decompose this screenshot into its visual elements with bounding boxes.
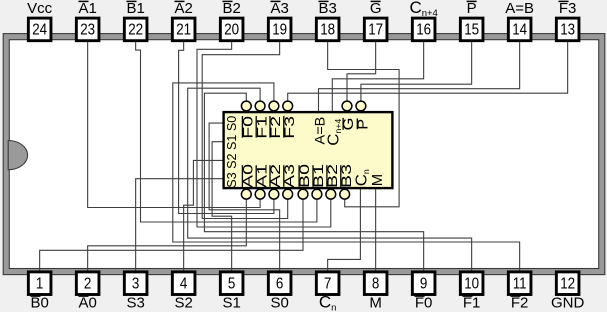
svg-text:19: 19 [272,22,287,39]
wire B2 net [197,41,331,227]
wire Cn+4 net [332,41,423,112]
pin box 1 (B0) [28,272,51,295]
label Cn+4 pin label (rotated) [325,118,343,145]
svg-text:B3: B3 [318,0,336,17]
wire B0 net [40,199,303,271]
wire S0 net [209,123,280,271]
svg-text:M: M [370,174,386,186]
pin box 16 (Cn+4) [412,18,435,41]
svg-text:23: 23 [80,22,95,39]
label Cn pin label (rotated) [353,169,371,186]
svg-text:G: G [370,0,382,17]
svg-text:6: 6 [276,275,283,292]
svg-text:4: 4 [180,275,187,292]
pin box 7 (Cn) [316,272,339,295]
inversion bubble B3 in [340,189,350,199]
svg-text:21: 21 [176,22,191,39]
pin box 11 (F2) [508,272,531,295]
svg-text:1: 1 [36,275,43,292]
svg-text:F3: F3 [559,0,577,17]
label F1 pin label (rotated) [254,116,270,139]
pin box 15 (P) [460,18,483,41]
svg-text:7: 7 [324,275,331,292]
pin box 21 (A2) [172,18,195,41]
label P pin label (rotated) [355,118,371,129]
pin box 5 (S1) [220,272,243,295]
label B0 pin label (rotated) [297,164,313,188]
svg-text:3: 3 [132,275,139,292]
svg-text:A2: A2 [174,0,192,17]
package inner area [9,40,598,269]
inversion bubble F3 out [283,101,293,111]
wire S1 net [212,142,232,271]
label F0 pin label (rotated) [240,116,256,139]
wire G net [347,41,376,101]
wire A=B net [319,41,520,112]
svg-text:M: M [369,295,382,312]
pin box 8 (M) [364,272,387,295]
wire B3 net [328,41,399,207]
svg-text:S3 S2 S1 S0: S3 S2 S1 S0 [225,116,239,188]
pin box 20 (B2) [220,18,243,41]
svg-text:16: 16 [416,22,431,39]
svg-text:F1: F1 [463,295,481,312]
pin box 18 (B3) [316,18,339,41]
label A1 pin label (rotated) [254,164,270,188]
svg-text:S3: S3 [126,295,144,312]
svg-text:17: 17 [368,22,383,39]
svg-text:22: 22 [128,22,143,39]
pin box 23 (A1) [76,18,99,41]
wire P net [361,41,472,101]
pin box 9 (F0) [412,272,435,295]
label F3 pin label (rotated) [282,116,298,139]
svg-text:9: 9 [420,275,427,292]
svg-text:A0: A0 [78,295,96,312]
svg-text:P: P [467,0,477,17]
svg-text:S0: S0 [270,295,288,312]
pin box 3 (S3) [124,272,147,295]
pin box 19 (A3) [268,18,291,41]
svg-text:B2: B2 [222,0,240,17]
svg-text:2: 2 [84,275,91,292]
inversion bubble P out [356,101,366,111]
label B3 pin label (rotated) [339,164,355,188]
pin box 6 (S0) [268,272,291,295]
svg-text:F0: F0 [415,295,433,312]
label A2 pin label (rotated) [268,164,284,188]
pin box 4 (S2) [172,272,195,295]
inversion bubble F0 out [241,101,251,111]
pin box 14 (A=B) [508,18,531,41]
svg-text:5: 5 [228,275,235,292]
pin box 13 (F3) [556,18,579,41]
inversion bubble G out [342,101,352,111]
wire Cn net [328,188,361,271]
svg-text:B0: B0 [30,295,48,312]
inversion bubble B1 in [312,189,322,199]
wire S2 net [184,160,224,271]
svg-text:20: 20 [224,22,239,39]
wire A2 net [179,41,274,214]
inversion bubble F1 out [255,101,265,111]
svg-text:10: 10 [464,275,479,292]
label A=B pin label (rotated) [312,117,328,145]
inversion bubble A3 in [283,189,293,199]
inversion bubble B2 in [326,189,336,199]
label B2 pin label (rotated) [325,164,341,188]
svg-text:13: 13 [560,22,575,39]
svg-text:12: 12 [560,275,575,292]
label A0 pin label (rotated) [240,164,256,188]
svg-text:Vcc: Vcc [27,0,53,17]
pin box 12 (GND) [556,272,579,295]
svg-text:14: 14 [512,22,527,39]
wire A1 net [88,41,260,208]
svg-text:A=B: A=B [505,0,534,17]
inversion bubble A0 in [241,189,251,199]
inversion bubble F2 out [269,101,279,111]
wire M net [375,188,377,271]
svg-text:11: 11 [513,275,527,292]
inversion bubble B0 in [298,189,308,199]
pin box 22 (B1) [124,18,147,41]
wire F1 net [188,88,472,271]
svg-text:GND: GND [551,295,585,312]
op symbol: ALU IC body (74181 logic symbol) [224,112,393,188]
wire S3 net [136,179,224,271]
label B1 pin label (rotated) [311,164,327,188]
wire A0 net [88,199,247,271]
svg-text:24: 24 [32,22,47,39]
svg-text:S1: S1 [222,295,240,312]
pin box 2 (A0) [76,272,99,295]
wire F2 net [173,83,520,271]
svg-text:8: 8 [372,275,379,292]
svg-text:A1: A1 [78,0,96,17]
svg-text:A3: A3 [270,0,288,17]
svg-text:18: 18 [320,22,335,39]
pin box 10 (F1) [460,272,483,295]
IC package body (DIP-24 outline) [3,34,605,275]
wire F0 net [204,93,423,271]
inversion bubble A1 in [255,189,265,199]
svg-text:15: 15 [464,22,479,39]
label F2 pin label (rotated) [268,116,284,139]
wire F3 net [288,41,568,101]
wire A3 net [202,41,288,219]
inversion bubble A2 in [269,189,279,199]
svg-text:B1: B1 [126,0,144,17]
label G pin label (rotated) [341,118,357,131]
pin-1 index notch [8,141,27,170]
wire B1 net [136,41,317,222]
pin box 17 (G) [364,18,387,41]
label S3 S2 S1 S0 select inputs (rotated) [225,116,239,188]
svg-text:F2: F2 [511,295,529,312]
label M pin label (rotated) [370,174,386,186]
svg-text:S2: S2 [174,295,192,312]
label A3 pin label (rotated) [282,164,298,188]
pin box 24 (Vcc) [28,18,51,41]
